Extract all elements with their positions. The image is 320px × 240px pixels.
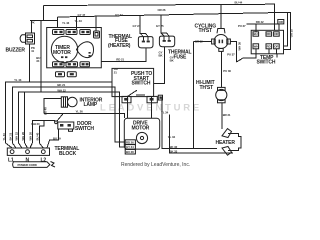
svg-text:MOTOR: MOTOR: [53, 50, 71, 56]
timer cam: [77, 42, 94, 58]
svg-text:BR 31: BR 31: [223, 113, 231, 117]
svg-text:34: 34: [36, 59, 40, 63]
wire RD 42 link: [246, 24, 278, 31]
svg-text:BK 21: BK 21: [9, 132, 13, 140]
svg-text:SWITCH: SWITCH: [75, 126, 94, 132]
wire cycling bottom to hi-limit: [220, 51, 222, 87]
svg-text:WH 20: WH 20: [29, 132, 33, 141]
wire door down: [47, 129, 59, 148]
wire mid drop x41: [40, 21, 42, 92]
svg-text:PU 30: PU 30: [223, 69, 231, 73]
svg-text:BU 40: BU 40: [36, 132, 40, 140]
svg-text:YL 34: YL 34: [168, 135, 176, 139]
svg-text:PU 37: PU 37: [227, 53, 235, 57]
svg-text:BLOCK: BLOCK: [59, 151, 77, 157]
wire riser BU40: [39, 121, 44, 148]
thermal fuse F2: [159, 36, 174, 47]
wire drops into timer top: [76, 17, 78, 30]
heater HE1: [222, 129, 241, 156]
svg-text:LAMP: LAMP: [84, 102, 98, 108]
hi-limit thermostat TH2: [216, 87, 227, 102]
svg-text:PU 37: PU 37: [238, 24, 246, 28]
svg-text:RD: RD: [267, 44, 271, 48]
svg-text:BK 21: BK 21: [57, 83, 65, 87]
svg-text:GY 25: GY 25: [156, 24, 164, 28]
svg-text:TH'ST: TH'ST: [200, 85, 214, 91]
svg-text:WH 20: WH 20: [31, 122, 40, 126]
door switch S3: [55, 114, 74, 132]
svg-text:WH 22: WH 22: [15, 132, 19, 141]
connector terminal D: [158, 95, 162, 100]
svg-text:GY 24: GY 24: [115, 13, 123, 17]
wire riser WH22: [19, 92, 126, 148]
wire right inner vertical: [284, 12, 288, 46]
svg-text:21: 21: [114, 70, 118, 74]
wire riser BK21: [12, 87, 125, 148]
svg-text:L2: L2: [41, 157, 47, 163]
wire fuse1 bottom to timer: [101, 48, 146, 62]
svg-text:HEATER: HEATER: [216, 140, 236, 146]
svg-text:RD: RD: [267, 32, 271, 36]
svg-text:MOTOR: MOTOR: [132, 126, 150, 132]
wire cycling left: [194, 41, 212, 43]
power cord P1: [13, 162, 55, 168]
wire fuse2 top feed: [161, 15, 164, 36]
svg-text:WH 26: WH 26: [21, 132, 25, 141]
svg-text:BU 28: BU 28: [126, 150, 134, 154]
svg-text:(HEATER): (HEATER): [108, 43, 131, 49]
thermal fuse F1 (heater): [138, 37, 153, 48]
timer bottom terminals: [53, 62, 65, 67]
motor terminal stack: [125, 140, 135, 145]
wire riser WH20: [30, 121, 55, 148]
svg-text:BU: BU: [254, 32, 258, 36]
timer motor circle: [51, 36, 77, 62]
svg-text:OR 26: OR 26: [158, 8, 166, 12]
wire second bus GY: [58, 12, 291, 49]
wire YL26 to motor: [44, 114, 124, 119]
svg-text:TH'ST: TH'ST: [199, 28, 213, 34]
wire drop to BU terminal: [255, 24, 257, 32]
svg-text:WH 22: WH 22: [57, 88, 66, 92]
svg-text:YL 34: YL 34: [161, 110, 169, 114]
svg-text:WH: WH: [254, 44, 259, 48]
svg-text:RD 21: RD 21: [116, 58, 124, 62]
wire motor right2: [170, 114, 233, 153]
timer pin marks right: [89, 52, 91, 54]
svg-text:YL 43: YL 43: [2, 133, 6, 141]
wire temp bottom left: [237, 54, 257, 62]
wire cycling right: [230, 42, 236, 63]
svg-text:BU 44: BU 44: [235, 1, 243, 5]
svg-text:RD 26: RD 26: [126, 140, 134, 144]
wire buzzer link: [30, 20, 58, 22]
svg-text:41: 41: [31, 49, 35, 53]
svg-text:BU 39: BU 39: [53, 137, 61, 141]
svg-text:SWITCH: SWITCH: [257, 60, 276, 66]
wire buzzer drop: [30, 21, 32, 33]
terminal block TB1: [7, 148, 49, 155]
svg-text:FUSE: FUSE: [174, 54, 188, 60]
terminal OR 21: [278, 20, 284, 24]
svg-text:YL 26: YL 26: [76, 110, 84, 114]
wire fuse1 top feed: [140, 16, 143, 37]
svg-text:GY 47: GY 47: [78, 13, 86, 17]
wire fuse2 bottom down: [154, 47, 165, 84]
svg-text:POWER CORD: POWER CORD: [18, 163, 37, 167]
svg-text:RD 42: RD 42: [256, 20, 264, 24]
timer right terminal: [94, 31, 100, 38]
svg-text:GY 24: GY 24: [133, 24, 141, 28]
interior lamp DS1: [61, 97, 77, 107]
wire lamp left: [44, 99, 61, 114]
wire buzzer down: [28, 45, 30, 82]
timer T1: [47, 16, 102, 76]
svg-text:BUZZER: BUZZER: [6, 48, 26, 54]
svg-text:YL 43: YL 43: [75, 19, 83, 23]
svg-text:SWITCH: SWITCH: [132, 80, 151, 86]
switch lever: [128, 90, 137, 96]
wire hi-limit to heater: [221, 103, 223, 129]
svg-text:OR 35: OR 35: [289, 29, 293, 37]
wire riser extra: [25, 92, 28, 148]
wire top bus OR26: [44, 4, 275, 30]
wire long vertical to heater: [193, 42, 195, 149]
timer pin marks circle bottom: [61, 56, 63, 58]
svg-text:YL 43: YL 43: [14, 78, 22, 82]
wire motor right up: [162, 97, 217, 149]
wire riser YL43: [6, 82, 112, 148]
timer top terminals: [53, 30, 65, 35]
timer below-box terminals: [56, 72, 65, 77]
buzzer BZ1: [20, 33, 34, 44]
svg-text:WH 38: WH 38: [237, 42, 241, 51]
wire switch to motor left: [127, 97, 129, 119]
svg-text:BU 40: BU 40: [44, 107, 48, 115]
svg-text:BK 33: BK 33: [169, 149, 177, 153]
wire drop x43.5: [43, 6, 45, 21]
wire switch to motor right: [151, 97, 153, 119]
svg-text:YL 43: YL 43: [62, 21, 70, 25]
svg-text:Rendered by LeadVenture, Inc.: Rendered by LeadVenture, Inc.: [121, 162, 190, 168]
switch contact terminals: [122, 96, 131, 102]
wire cycling top feed: [220, 5, 222, 29]
cycling thermostat TH1: [212, 29, 231, 52]
wire vertical into timer: [57, 17, 59, 28]
drive motor M1: [124, 118, 159, 154]
push to start switch S1: [112, 68, 157, 102]
svg-text:GY 34: GY 34: [126, 145, 134, 149]
wire temp bottom right: [276, 54, 278, 58]
temp switch S2: [251, 30, 283, 54]
